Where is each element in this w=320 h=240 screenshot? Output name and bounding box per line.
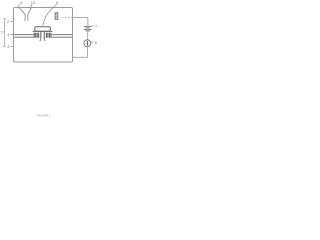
- right mounting hatch: [46, 33, 51, 38]
- svg-text:6: 6: [95, 40, 98, 45]
- nozzle tip flare: [40, 39, 46, 41]
- nozzle head bar: [35, 27, 51, 32]
- dashed wire from probe through wall: [62, 16, 73, 18]
- svg-text:9: 9: [20, 0, 23, 5]
- electrode probe element: [55, 13, 58, 20]
- meter 6 circle: [84, 40, 91, 47]
- svg-text:10: 10: [31, 0, 36, 5]
- svg-text:7: 7: [95, 24, 98, 29]
- svg-text:2: 2: [7, 19, 10, 24]
- leader 4: [10, 33, 13, 35]
- nozzle flange: [33, 30, 53, 32]
- leader 3: [10, 45, 13, 47]
- hopper funnel 9/10: [20, 8, 32, 15]
- leader 5 curved: [43, 4, 57, 26]
- dimension line 1: [3, 19, 5, 47]
- leader 2: [10, 21, 12, 23]
- leader 1: [3, 31, 4, 33]
- wire meter to chamber wall: [73, 47, 88, 58]
- leader 6: [91, 41, 94, 44]
- svg-text:4: 4: [7, 32, 10, 37]
- leader 7: [92, 25, 94, 28]
- meter needle: [86, 41, 88, 46]
- leader 9: [18, 4, 21, 7]
- nozzle stem: [41, 31, 45, 39]
- hopper feed tube: [24, 15, 28, 21]
- wire battery to meter: [87, 31, 89, 40]
- left mounting hatch: [34, 33, 39, 38]
- svg-text:FIGURE 1: FIGURE 1: [37, 114, 51, 118]
- leader 10: [31, 4, 32, 7]
- electrode plate top line: [14, 34, 72, 36]
- svg-text:3: 3: [7, 44, 10, 49]
- wire wall to battery rail: [73, 17, 88, 26]
- battery 7: [84, 26, 92, 31]
- electrode plate bottom line: [14, 36, 72, 38]
- chamber box 1: [14, 8, 73, 63]
